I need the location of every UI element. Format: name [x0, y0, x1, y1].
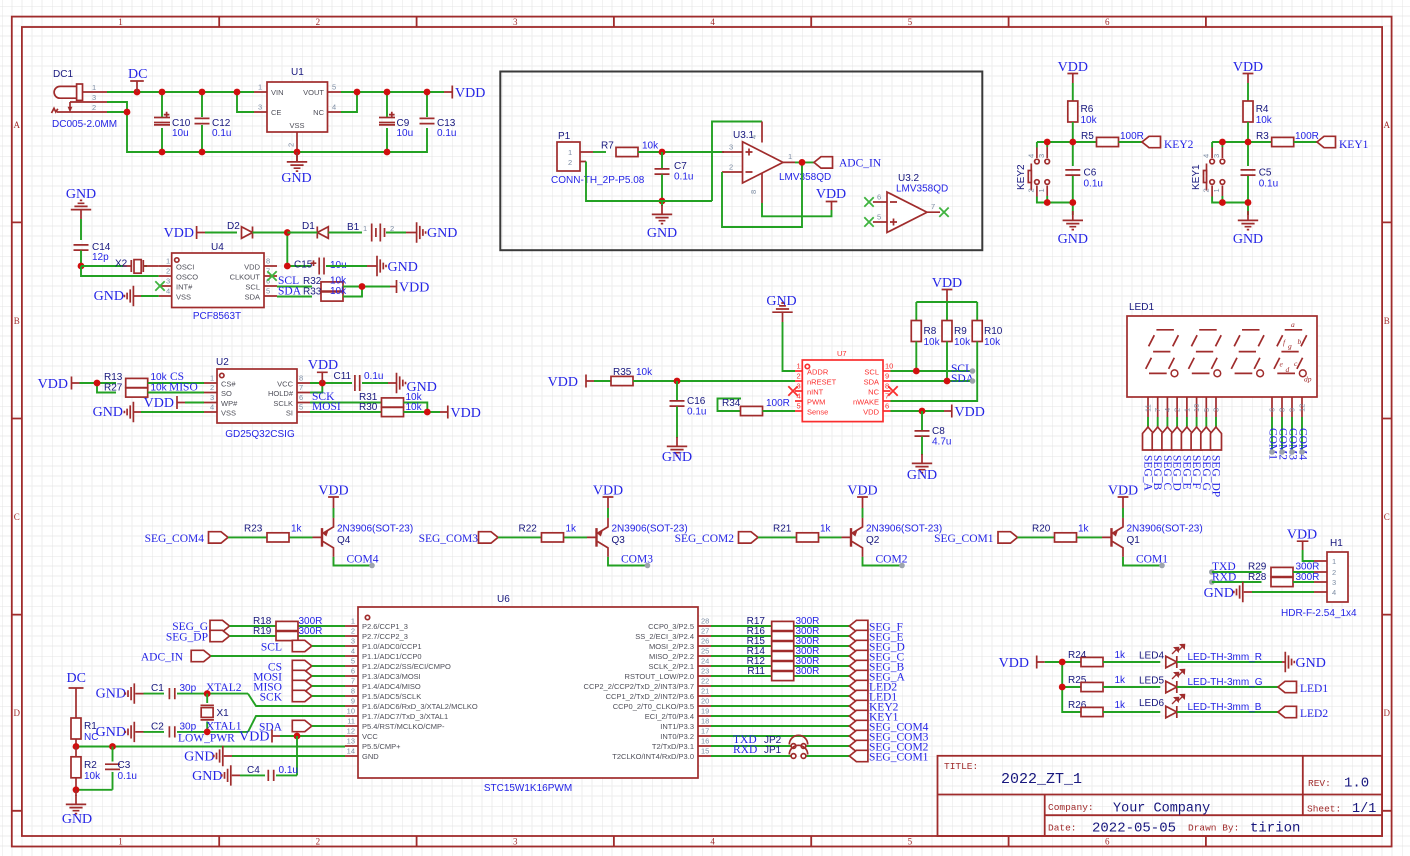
svg-text:VDD: VDD — [816, 187, 846, 202]
wire pin22 — [711, 685, 849, 687]
svg-text:XTAL2: XTAL2 — [206, 682, 242, 694]
svg-text:SEG_COM1: SEG_COM1 — [934, 533, 994, 545]
svg-text:WP#: WP# — [221, 399, 238, 408]
svg-text:INT#: INT# — [176, 283, 193, 292]
digit 3 segments — [1231, 330, 1264, 377]
crystal X1 — [201, 694, 230, 732]
junction R31/R30 — [424, 409, 431, 416]
svg-text:VDD: VDD — [863, 408, 879, 417]
net port ADC_IN mcu — [141, 650, 345, 663]
svg-text:D: D — [1384, 708, 1391, 718]
svg-text:Q2: Q2 — [866, 535, 880, 546]
svg-text:2: 2 — [316, 17, 321, 27]
power flag VDD key 2 — [1058, 60, 1088, 83]
capacitor C12 0.1u — [195, 118, 232, 139]
svg-text:1: 1 — [1182, 408, 1191, 412]
wire pin16 — [711, 745, 849, 747]
resistor R16 300R — [747, 626, 820, 641]
svg-text:P1.0/ADC0/CCP1: P1.0/ADC0/CCP1 — [362, 642, 422, 651]
wire emitter — [607, 508, 609, 518]
no-connect X on CLKOUT — [267, 271, 276, 280]
diode D2 — [227, 221, 253, 239]
svg-text:INT0/P3.2: INT0/P3.2 — [660, 732, 694, 741]
svg-text:VDD: VDD — [455, 86, 485, 101]
svg-text:GND: GND — [1296, 656, 1326, 671]
svg-text:MOSI_2/P2.3: MOSI_2/P2.3 — [649, 642, 694, 651]
power flag VDD at WP# — [144, 396, 204, 411]
analog front-end section box — [500, 72, 982, 251]
power flag VDD sensor left — [548, 375, 594, 391]
svg-text:VCC: VCC — [277, 380, 293, 389]
svg-text:10k: 10k — [954, 337, 971, 348]
wire base drive — [228, 536, 313, 538]
svg-text:20: 20 — [701, 697, 709, 706]
svg-text:10k: 10k — [1081, 115, 1098, 126]
net port SEG_F — [849, 620, 902, 633]
svg-text:VCC: VCC — [362, 732, 378, 741]
wire SCL out — [891, 370, 973, 372]
net port SEG_COM1 — [849, 750, 928, 763]
wire collector to COM1 — [1123, 557, 1162, 566]
svg-text:10k: 10k — [151, 383, 168, 394]
resistor R19 300R — [253, 626, 322, 641]
svg-text:GND: GND — [62, 812, 92, 827]
wire VDD pin6 — [891, 410, 945, 412]
svg-text:NC: NC — [313, 108, 324, 117]
power flag VDD Q3 emitter — [593, 484, 623, 509]
svg-text:4: 4 — [1332, 588, 1336, 597]
no-connect X on NC — [888, 386, 897, 395]
net port SEG_B — [849, 660, 904, 673]
digit 4 segments with letters — [1274, 320, 1312, 384]
net port LED1 — [1278, 681, 1328, 695]
svg-text:C16: C16 — [687, 396, 706, 407]
net port SCL mcu — [261, 640, 345, 653]
svg-text:1: 1 — [1212, 188, 1221, 192]
svg-text:0.1u: 0.1u — [674, 172, 693, 183]
svg-text:D: D — [14, 708, 21, 718]
wire to R18 — [230, 625, 346, 627]
svg-text:Q1: Q1 — [1127, 535, 1141, 546]
wire base drive — [1018, 536, 1103, 538]
net port SEG_E — [1180, 427, 1192, 490]
svg-text:SEG_COM1: SEG_COM1 — [869, 752, 929, 764]
svg-text:1: 1 — [210, 374, 214, 383]
power flag VDD mcu — [239, 730, 345, 745]
svg-text:5: 5 — [266, 287, 270, 296]
ground GND above C14 — [66, 187, 96, 219]
junction VDD/C4 — [294, 733, 301, 740]
net port KEY2 — [1142, 136, 1194, 151]
svg-text:300R: 300R — [1296, 562, 1320, 573]
LED LED5 green — [1139, 669, 1278, 693]
net port SEG_COM4 — [145, 532, 228, 545]
regulator U1 — [254, 67, 341, 147]
svg-text:4: 4 — [210, 403, 214, 412]
capacitor C16 0.1u — [670, 381, 707, 438]
svg-text:XTAL1: XTAL1 — [206, 721, 242, 733]
svg-text:0.1u: 0.1u — [279, 765, 298, 776]
connector DC1 DC005-2.0MM barrel jack — [52, 69, 118, 130]
net port SEG_COM3 — [419, 532, 498, 545]
svg-text:GND: GND — [94, 289, 124, 304]
junction divider bottom — [73, 786, 80, 793]
svg-text:GND: GND — [96, 687, 126, 702]
resistor R32 10k — [277, 276, 390, 292]
wire GND to ADDR pin — [783, 322, 796, 371]
svg-text:P1.4/ADC4/MISO: P1.4/ADC4/MISO — [362, 682, 421, 691]
power flag VDD sensor pullups — [932, 276, 962, 302]
svg-text:VDD: VDD — [451, 406, 481, 421]
net port SEG_G — [172, 620, 229, 633]
svg-text:JP1: JP1 — [764, 745, 782, 756]
wire to R19 — [230, 635, 346, 637]
net port LED2 — [1278, 706, 1328, 720]
svg-text:SCL: SCL — [261, 642, 282, 654]
svg-text:d: d — [1286, 365, 1290, 374]
power flag VDD SPI pullup — [440, 406, 481, 422]
svg-text:nWAKE: nWAKE — [853, 398, 879, 407]
svg-text:2N3906(SOT-23): 2N3906(SOT-23) — [866, 524, 942, 535]
svg-text:1/1: 1/1 — [1352, 802, 1376, 817]
svg-text:VDD: VDD — [244, 263, 260, 272]
svg-text:3: 3 — [729, 143, 733, 152]
pushbutton KEY1 — [1191, 147, 1225, 197]
svg-text:2022-05-05: 2022-05-05 — [1092, 821, 1176, 837]
svg-text:VDD: VDD — [164, 226, 194, 241]
wire VDD rail to leds — [1045, 662, 1081, 712]
svg-text:1: 1 — [258, 83, 262, 92]
svg-text:KEY2: KEY2 — [1016, 164, 1027, 190]
svg-text:26: 26 — [701, 637, 709, 646]
wire VDD to R13/R27 — [80, 383, 117, 393]
resistor R20 1k — [1032, 523, 1090, 542]
net port SEG_COM3 — [849, 730, 928, 743]
svg-text:R4: R4 — [1256, 104, 1269, 115]
net port MISO mcu — [253, 680, 345, 693]
svg-text:3: 3 — [258, 103, 262, 112]
svg-text:5: 5 — [877, 213, 881, 222]
svg-text:10u: 10u — [172, 128, 189, 139]
svg-text:2: 2 — [729, 163, 733, 172]
svg-text:Sheet:: Sheet: — [1307, 804, 1341, 815]
jumper JP2 — [764, 735, 808, 748]
title block — [938, 756, 1383, 837]
svg-text:2: 2 — [1173, 408, 1182, 412]
svg-text:12: 12 — [1298, 404, 1307, 412]
wire emitter — [333, 508, 335, 518]
resistor R34 100R — [722, 398, 795, 416]
svg-text:U7: U7 — [837, 349, 847, 358]
resistor R9 10k — [942, 321, 971, 382]
svg-text:300R: 300R — [299, 626, 323, 637]
net port KEY1 — [1317, 136, 1369, 151]
svg-text:P5.5/CMP+: P5.5/CMP+ — [362, 742, 401, 751]
ground GND header — [1204, 582, 1314, 602]
svg-text:NC: NC — [84, 732, 98, 743]
svg-text:2022_ZT_1: 2022_ZT_1 — [1001, 771, 1082, 788]
resistor R26 1k — [1068, 700, 1160, 717]
net port SEG_COM2 — [849, 740, 928, 753]
svg-text:9: 9 — [885, 372, 889, 381]
op-amp U3.1 LMV358QD — [722, 122, 831, 204]
svg-text:U2: U2 — [216, 357, 229, 368]
wire DC input net — [107, 92, 427, 152]
wire P1 to R7 — [593, 151, 606, 153]
svg-text:10k: 10k — [330, 276, 347, 287]
junction dots input rail — [134, 89, 141, 96]
net port KEY1 — [849, 710, 898, 723]
capacitor C9 10u polarized — [379, 112, 413, 139]
svg-text:2: 2 — [797, 372, 801, 381]
svg-text:0.1u: 0.1u — [437, 128, 456, 139]
ground GND key1 — [1233, 211, 1263, 247]
power flag VDD Q1 emitter — [1108, 484, 1138, 509]
svg-text:10k: 10k — [636, 367, 653, 378]
svg-text:10u: 10u — [397, 128, 414, 139]
power flag VDD led rail — [999, 656, 1045, 672]
svg-text:P1.6/ADC6/RxD_3/XTAL2/MCLKO: P1.6/ADC6/RxD_3/XTAL2/MCLKO — [362, 702, 478, 711]
svg-text:LED2: LED2 — [1300, 708, 1328, 720]
wire crystal nets — [81, 266, 159, 276]
svg-text:VDD: VDD — [144, 396, 174, 411]
capacitor C8 4.7u — [915, 411, 952, 455]
svg-text:Q4: Q4 — [337, 535, 351, 546]
svg-text:9: 9 — [351, 697, 355, 706]
wire pin24 — [711, 665, 849, 667]
svg-text:VDD: VDD — [38, 377, 68, 392]
junction R7/C7 — [659, 149, 666, 156]
svg-text:LED6: LED6 — [1139, 698, 1164, 709]
svg-text:30p: 30p — [180, 722, 197, 733]
net port SDA mcu — [259, 720, 345, 733]
svg-text:3: 3 — [1037, 154, 1046, 158]
svg-text:14: 14 — [347, 747, 355, 756]
svg-text:GND: GND — [907, 468, 937, 483]
svg-text:CCP1_2/TxD_2/INT2/P3.6: CCP1_2/TxD_2/INT2/P3.6 — [606, 692, 694, 701]
svg-text:RSTOUT_LOW/P2.0: RSTOUT_LOW/P2.0 — [625, 672, 694, 681]
wire key1 ground row — [1212, 196, 1248, 215]
ground GND xtal c2 — [96, 722, 164, 742]
resistor R5 100R — [1081, 131, 1144, 147]
connector P1 CONN-TH_2P-P5.08 — [551, 131, 645, 186]
IC U4 PCF8563T — [159, 242, 277, 322]
svg-text:R2: R2 — [84, 760, 97, 771]
svg-text:ADC_IN: ADC_IN — [141, 652, 184, 664]
svg-text:R10: R10 — [984, 326, 1003, 337]
svg-text:4.7u: 4.7u — [932, 437, 951, 448]
resistor R25 1k — [1068, 675, 1160, 692]
svg-text:R8: R8 — [924, 326, 937, 337]
svg-text:2: 2 — [316, 837, 321, 847]
capacitor C13 0.1u — [420, 118, 457, 139]
ground GND at C16 — [662, 437, 692, 465]
svg-text:R27: R27 — [104, 383, 123, 394]
svg-text:KEY1: KEY1 — [1191, 164, 1202, 190]
svg-text:CONN-TH_2P-P5.08: CONN-TH_2P-P5.08 — [551, 175, 645, 186]
power flag VDD flash CS pullup — [38, 377, 80, 393]
resistor R27 10k — [104, 383, 204, 398]
svg-text:10: 10 — [885, 362, 893, 371]
svg-text:P1: P1 — [558, 131, 571, 142]
svg-text:MISO_2/P2.2: MISO_2/P2.2 — [649, 652, 694, 661]
svg-text:1k: 1k — [1115, 700, 1127, 711]
wire TXD to R29 — [1212, 571, 1262, 573]
resistor R10 10k — [891, 321, 1003, 402]
wire D2 to junction — [253, 233, 288, 267]
svg-text:15: 15 — [701, 747, 709, 756]
svg-text:Q3: Q3 — [612, 535, 626, 546]
junction C7/GND — [659, 198, 666, 205]
svg-text:10k: 10k — [924, 337, 941, 348]
svg-text:P2.6/CCP1_3: P2.6/CCP1_3 — [362, 622, 408, 631]
svg-text:4: 4 — [351, 647, 355, 656]
ground GND at C11 — [388, 373, 437, 395]
svg-text:6: 6 — [885, 402, 889, 411]
svg-text:27: 27 — [701, 627, 709, 636]
svg-text:GND: GND — [184, 750, 214, 765]
svg-text:COM4: COM4 — [1297, 428, 1309, 460]
svg-text:1: 1 — [92, 83, 96, 92]
svg-text:1.0: 1.0 — [1344, 776, 1369, 792]
net port SEG_C — [1161, 427, 1173, 490]
ground GND at U7 ADDR — [766, 294, 796, 322]
svg-text:nRESET: nRESET — [807, 378, 837, 387]
net port SEG_D — [849, 640, 904, 653]
svg-text:GND: GND — [1204, 586, 1234, 601]
LED LED4 red — [1139, 644, 1282, 668]
svg-text:7: 7 — [931, 202, 935, 211]
svg-text:LED-TH-3mm_G: LED-TH-3mm_G — [1188, 677, 1263, 688]
svg-text:LED1: LED1 — [1300, 683, 1328, 695]
svg-text:R11: R11 — [747, 666, 765, 677]
svg-text:RXD: RXD — [733, 744, 757, 756]
svg-text:0.1u: 0.1u — [1084, 179, 1103, 190]
junction crystal node — [78, 263, 85, 270]
resistor R12 300R — [747, 656, 820, 671]
svg-text:P5.4/RST/MCLKO/CMP-: P5.4/RST/MCLKO/CMP- — [362, 722, 445, 731]
svg-text:LED-TH-3mm_B: LED-TH-3mm_B — [1188, 702, 1262, 713]
power flag VDD Q4 emitter — [318, 484, 348, 509]
svg-text:SCL: SCL — [245, 283, 260, 292]
svg-text:6: 6 — [299, 393, 303, 402]
svg-text:13: 13 — [347, 737, 355, 746]
svg-text:SCK: SCK — [260, 692, 283, 704]
svg-text:100R: 100R — [1120, 131, 1144, 142]
digit 1 segments — [1146, 330, 1179, 377]
svg-text:C1: C1 — [151, 683, 164, 694]
svg-text:X1: X1 — [217, 708, 230, 719]
capacitor C10 10u polarized — [154, 112, 191, 139]
svg-text:CS#: CS# — [221, 380, 236, 389]
svg-text:P1.5/ADC5/SCLK: P1.5/ADC5/SCLK — [362, 692, 421, 701]
resistor R29 300R — [1248, 562, 1319, 577]
svg-text:R3: R3 — [1256, 131, 1269, 142]
resistor R33 10k — [277, 286, 362, 301]
svg-text:6: 6 — [1268, 408, 1277, 412]
svg-text:P2.7/CCP2_3: P2.7/CCP2_3 — [362, 632, 408, 641]
svg-text:T2/TxD/P3.1: T2/TxD/P3.1 — [652, 742, 694, 751]
MCU U6 STC15W1K16PWM — [345, 594, 711, 794]
svg-text:4: 4 — [710, 837, 715, 847]
wire GND to C14 — [80, 219, 82, 240]
svg-text:4: 4 — [749, 135, 758, 139]
svg-text:10: 10 — [347, 707, 355, 716]
wire RXD to R28 — [1212, 581, 1262, 583]
svg-text:SEG_COM2: SEG_COM2 — [675, 533, 735, 545]
svg-text:21: 21 — [701, 687, 709, 696]
net port SEG_DP — [1210, 427, 1222, 497]
svg-text:3: 3 — [351, 637, 355, 646]
svg-text:GND: GND — [388, 260, 418, 275]
svg-text:VSS: VSS — [289, 121, 304, 130]
svg-text:2: 2 — [166, 267, 170, 276]
svg-text:1: 1 — [788, 152, 792, 161]
net port SEG_COM2 — [675, 532, 758, 545]
svg-text:1k: 1k — [566, 523, 578, 534]
svg-text:REV:: REV: — [1308, 778, 1331, 789]
svg-text:2: 2 — [351, 627, 355, 636]
svg-text:a: a — [1291, 320, 1295, 329]
svg-text:6: 6 — [1105, 837, 1110, 847]
pushbutton KEY2 — [1016, 147, 1049, 197]
svg-text:4: 4 — [166, 287, 170, 296]
svg-text:CCP0_3/P2.5: CCP0_3/P2.5 — [648, 622, 694, 631]
wire base drive — [758, 536, 842, 538]
svg-text:SCLK: SCLK — [273, 399, 293, 408]
svg-text:VDD: VDD — [1287, 528, 1317, 543]
svg-text:10k: 10k — [151, 372, 168, 383]
svg-text:GND: GND — [96, 725, 126, 740]
svg-text:GD25Q32CSIG: GD25Q32CSIG — [225, 429, 295, 440]
display segment pins with numbers — [1144, 397, 1221, 417]
svg-text:C5: C5 — [1259, 168, 1272, 179]
svg-text:30p: 30p — [180, 683, 197, 694]
net port SEG_D — [1171, 427, 1183, 491]
svg-text:0.1u: 0.1u — [364, 371, 383, 382]
capacitor C7 0.1u — [655, 152, 694, 201]
svg-text:KEY1: KEY1 — [1339, 139, 1369, 151]
svg-text:100R: 100R — [766, 398, 790, 409]
svg-text:R7: R7 — [601, 141, 614, 152]
svg-text:2: 2 — [287, 143, 296, 147]
svg-text:U3.2: U3.2 — [898, 173, 920, 184]
svg-text:1k: 1k — [1078, 523, 1090, 534]
capacitor C14 12p — [74, 242, 111, 266]
svg-text:LOW_PWR: LOW_PWR — [178, 733, 235, 745]
display LED1 4-digit 7-segment — [1127, 302, 1317, 397]
resistor R30 10k — [310, 402, 440, 417]
svg-text:P1.1/ADC1/CCP0: P1.1/ADC1/CCP0 — [362, 652, 422, 661]
svg-text:ADDR: ADDR — [807, 368, 829, 377]
svg-text:GND: GND — [281, 171, 311, 186]
junction pullup node — [359, 283, 366, 290]
svg-text:C6: C6 — [1084, 168, 1097, 179]
svg-text:Your Company: Your Company — [1113, 802, 1210, 817]
svg-text:5: 5 — [797, 402, 801, 411]
resistor R23 1k — [244, 523, 303, 542]
resistor R4 10k — [1243, 101, 1273, 142]
net port SEG_DP — [166, 630, 230, 643]
svg-text:R23: R23 — [244, 523, 263, 534]
transistor Q3 2N3906 PNP — [587, 518, 688, 557]
svg-text:6: 6 — [1105, 17, 1110, 27]
digit 2 segments — [1189, 330, 1222, 377]
svg-text:12: 12 — [347, 727, 355, 736]
svg-text:GND: GND — [647, 226, 677, 241]
svg-text:0.1u: 0.1u — [1259, 179, 1278, 190]
capacitor C1 30p — [151, 683, 345, 706]
